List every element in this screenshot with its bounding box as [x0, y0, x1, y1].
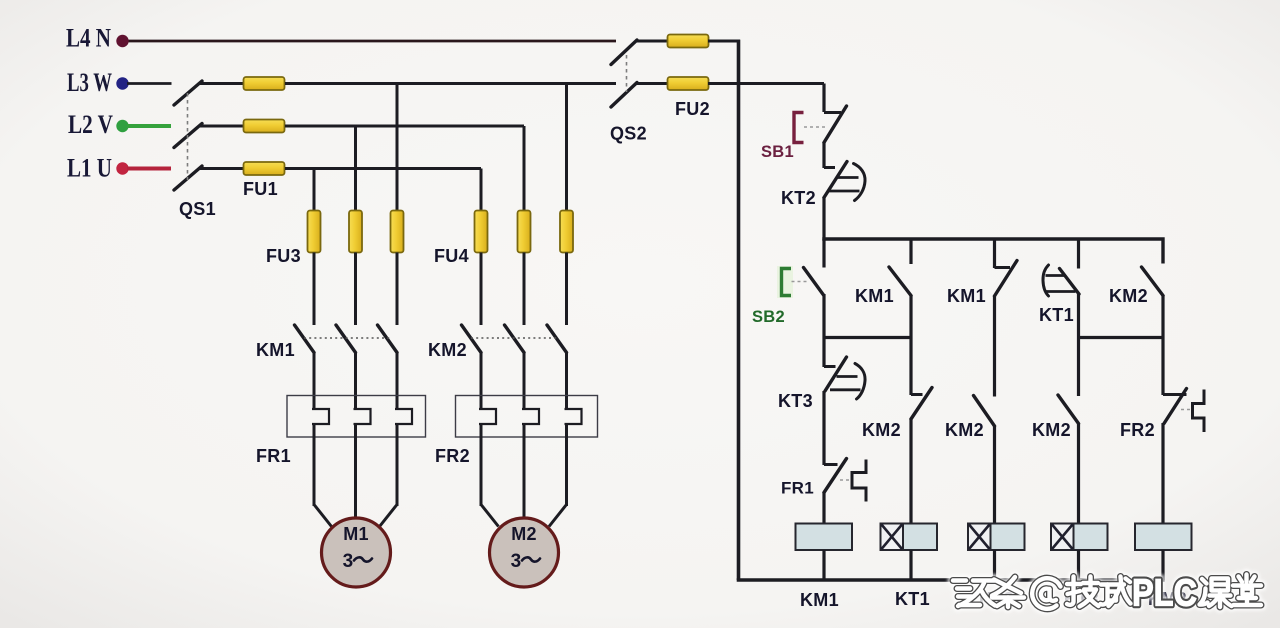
- svg-text:KM2: KM2: [862, 420, 901, 440]
- svg-text:L3 W: L3 W: [67, 68, 112, 97]
- svg-text:FR1: FR1: [781, 479, 814, 498]
- svg-text:FR1: FR1: [256, 446, 291, 466]
- svg-text:PLC: PLC: [1132, 573, 1197, 615]
- svg-text:FU1: FU1: [243, 179, 278, 199]
- svg-text:3: 3: [511, 551, 522, 572]
- svg-text:QS2: QS2: [610, 124, 647, 144]
- svg-text:KM1: KM1: [855, 286, 894, 306]
- svg-text:KT3: KT3: [778, 391, 813, 411]
- svg-text:L2 V: L2 V: [68, 110, 113, 139]
- svg-text:FU2: FU2: [675, 99, 710, 119]
- svg-text:KM1: KM1: [947, 286, 986, 306]
- svg-text:SB2: SB2: [752, 308, 785, 326]
- svg-text:KT2: KT2: [781, 188, 816, 208]
- svg-text:M2: M2: [511, 524, 537, 544]
- svg-text:FR2: FR2: [435, 446, 470, 466]
- svg-text:FU3: FU3: [266, 246, 301, 266]
- svg-text:L4 N: L4 N: [66, 24, 111, 53]
- svg-text:3: 3: [343, 551, 354, 572]
- svg-text:KT1: KT1: [1039, 305, 1074, 325]
- svg-text:KM2: KM2: [1109, 286, 1148, 306]
- svg-text:KM1: KM1: [256, 340, 295, 360]
- svg-text:FU4: FU4: [434, 246, 469, 266]
- svg-text:KT1: KT1: [895, 589, 930, 609]
- svg-text:KM2: KM2: [428, 340, 467, 360]
- svg-text:QS1: QS1: [179, 199, 216, 219]
- svg-text:M1: M1: [343, 524, 369, 544]
- svg-text:L1 U: L1 U: [67, 154, 112, 183]
- svg-text:KM1: KM1: [800, 590, 839, 610]
- svg-text:KM2: KM2: [1032, 420, 1071, 440]
- svg-text:FR2: FR2: [1120, 420, 1155, 440]
- svg-text:SB1: SB1: [761, 143, 794, 161]
- svg-text:KM2: KM2: [945, 420, 984, 440]
